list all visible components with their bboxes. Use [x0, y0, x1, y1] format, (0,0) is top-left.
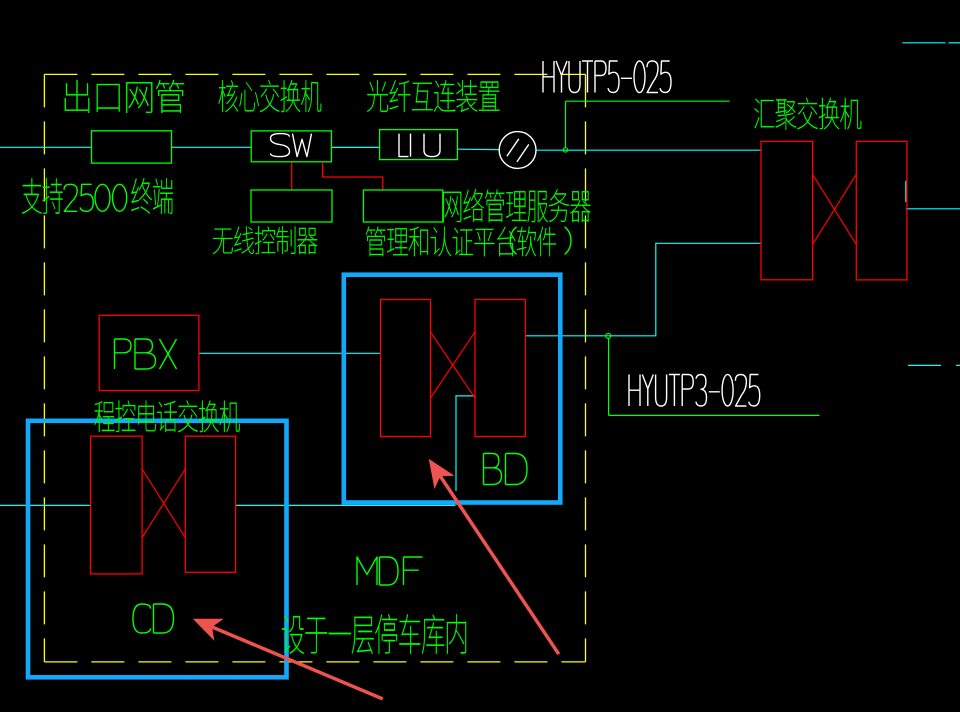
wire: gateway box to SW	[172, 146, 252, 148]
label: wireless controller	[213, 226, 318, 254]
leader line HYUTP3-025	[609, 339, 820, 416]
wire: left edge to gateway box	[0, 146, 92, 148]
fiber optic coupler symbol	[499, 132, 536, 169]
wire: PBX to BD frame	[199, 352, 381, 354]
CD distribution frame symbol	[91, 436, 236, 574]
label: MDF	[357, 557, 423, 585]
wire: fiber circle to aggregation switch	[536, 149, 761, 151]
network management server box	[363, 190, 442, 222]
label: supports 2500 terminals (part2)	[131, 178, 173, 214]
label: management and auth platform	[366, 227, 516, 257]
label: network management server	[443, 189, 590, 222]
wire: right dashed continuation	[908, 364, 960, 366]
label: SW	[271, 134, 312, 157]
wire: aggregation switch right stub	[906, 181, 960, 209]
PBX box	[99, 315, 199, 390]
arrow pointing to CD frame	[193, 619, 383, 699]
label: fiber interconnect device	[367, 80, 500, 112]
node on backbone	[563, 148, 567, 152]
wire: CD horizontal bus left	[0, 504, 91, 506]
MDF room dashed boundary	[44, 74, 585, 662]
wire: BD to node and up to aggregation switch	[526, 243, 762, 335]
wire: LIU to fiber circle	[458, 148, 500, 150]
leader line HYUTP5-025	[566, 101, 730, 147]
wireless controller box	[251, 190, 332, 222]
fiber interconnect LIU box	[380, 130, 458, 160]
core switch SW box	[251, 131, 331, 162]
egress gateway box	[92, 131, 172, 163]
label: aggregation switch	[754, 98, 861, 130]
arrow pointing to BD frame	[429, 459, 559, 655]
aggregation switch symbol	[761, 141, 907, 280]
label: LIU	[399, 134, 440, 157]
BD highlight frame	[344, 275, 561, 503]
label: located in parking garage level 1	[282, 614, 466, 654]
label: egress gateway (chu kou wang guan)	[65, 80, 184, 113]
CD highlight frame	[28, 421, 287, 678]
label: parens around software	[510, 227, 571, 255]
wire: CD bus to BD drop	[236, 504, 456, 506]
label: PBX telephone switch	[95, 400, 240, 432]
wire: SW to network management server	[323, 163, 383, 190]
label: CD	[133, 604, 174, 633]
wire: SW to LIU	[332, 146, 380, 148]
BD distribution frame symbol	[381, 300, 526, 437]
label: HYUTP3-025 cable	[629, 374, 760, 406]
label: supports 2500 terminals (part1)	[22, 178, 63, 214]
label: software (ruan jian)	[517, 227, 556, 257]
label: core switch (he xin jiao huan ji)	[219, 80, 322, 112]
label: BD	[484, 454, 528, 485]
wire: SW to wireless controller	[291, 162, 293, 189]
label: PBX	[115, 339, 177, 369]
label: 2500 digits	[64, 184, 127, 211]
wire: top-right dashed continuation	[902, 42, 960, 44]
label: HYUTP5-025 cable	[543, 61, 671, 93]
node at BD uplink	[606, 333, 611, 338]
wire: BD frame inner drop	[456, 396, 475, 491]
